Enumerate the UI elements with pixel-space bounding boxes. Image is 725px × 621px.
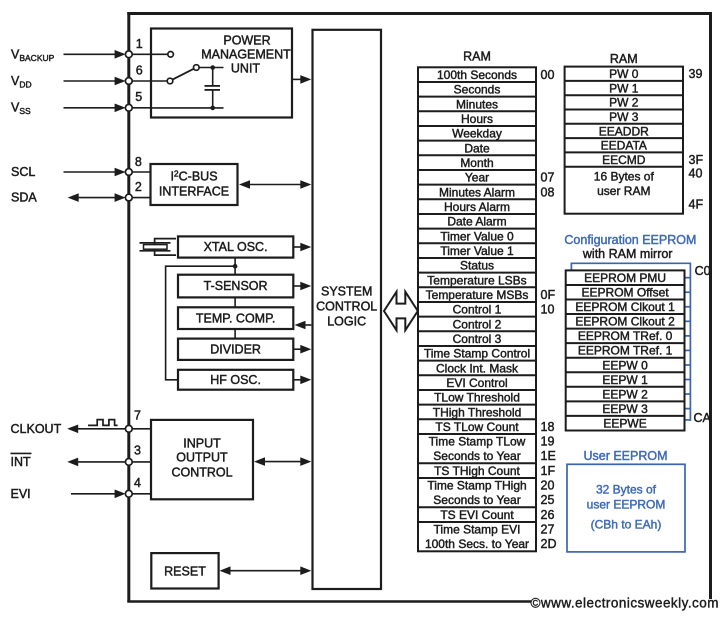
svg-text:Seconds: Seconds [454,83,501,97]
svg-text:CONTROL: CONTROL [316,300,377,314]
svg-text:6: 6 [136,64,143,78]
svg-text:10: 10 [541,303,555,317]
wire VSS into chip [64,104,152,113]
pin number 1 [136,37,143,51]
svg-text:HF OSC.: HF OSC. [210,373,261,387]
svg-text:EEPROM Clkout 1: EEPROM Clkout 1 [575,300,675,314]
wire system control logic to TEMP COMP [295,321,312,330]
svg-text:XTAL OSC.: XTAL OSC. [204,240,268,254]
RAM row Date Alarm [447,215,506,229]
address label 1F [541,464,556,478]
svg-text:5: 5 [135,90,142,104]
PMU switch contact circle VDD [151,78,173,84]
PMU junction node bottom [210,106,215,111]
svg-text:16 Bytes of: 16 Bytes of [594,169,655,183]
svg-text:EEPW 1: EEPW 1 [602,373,648,387]
wire VBACKUP into chip [64,50,152,59]
svg-text:RAM: RAM [610,52,638,66]
RAM row Seconds to Year [433,493,520,507]
watermark electronicsweekly.com [531,596,719,611]
RAM cell 16 Bytes of user RAM [594,169,655,198]
address label 19 [541,435,555,449]
svg-text:7: 7 [134,409,141,423]
svg-text:Month: Month [460,156,493,170]
RAM row 100th Secs. to Year [425,537,529,551]
block U-PMU POWER MANAGEMENT UNIT [151,29,292,118]
svg-text:TEMP. COMP.: TEMP. COMP. [196,311,275,325]
address label 4F [689,197,704,211]
svg-text:100th Secs. to Year: 100th Secs. to Year [425,537,529,551]
svg-text:THigh Threshold: THigh Threshold [433,405,522,419]
RAM row Status [460,259,494,273]
svg-text:8: 8 [135,155,142,169]
pin circle 6 [125,78,132,85]
svg-text:INTERFACE: INTERFACE [159,185,229,199]
svg-text:1: 1 [136,37,143,51]
capacitor C1 backup [205,68,221,108]
pin circle 4 [125,490,132,497]
svg-text:TS THigh Count: TS THigh Count [434,464,520,478]
svg-text:with RAM mirror: with RAM mirror [582,247,673,261]
user EEPROM box [567,464,685,552]
svg-text:EEPROM Offset: EEPROM Offset [582,286,670,300]
pin label CLKOUT [11,422,62,436]
pin label SDA [11,191,37,205]
pin number 7 [134,409,141,423]
pin label SCL [11,165,35,179]
svg-text:19: 19 [541,435,555,449]
svg-text:EEDATA: EEDATA [601,139,647,153]
RAM row TS EVI Count [440,508,514,522]
RAM row Control 1 [453,303,502,317]
svg-text:1F: 1F [541,464,556,478]
subtitle with RAM mirror [582,247,673,261]
svg-text:CA: CA [694,411,712,425]
svg-text:(CBh to EAh): (CBh to EAh) [591,517,662,531]
RAM row Timer Value 0 [440,229,514,243]
svg-text:40: 40 [689,166,703,180]
EEPROM row EEPROM PMU [584,271,666,285]
wire I2C to system control logic bidirectional [239,180,311,189]
RAM row Control 3 [453,332,502,346]
address label 3F [689,153,704,167]
svg-text:SCL: SCL [11,165,35,179]
svg-text:25: 25 [541,493,555,507]
RAM row Time Stamp Control [424,347,530,361]
RAM row Temperature MSBs [426,288,529,302]
svg-text:Time Stamp Control: Time Stamp Control [424,347,530,361]
pin number 3 [134,444,141,458]
bus double-arrow between system control logic and RAM [384,292,418,331]
svg-text:SDA: SDA [11,191,37,205]
RAM row Weekday [452,127,502,141]
RAM row EVI Control [446,376,507,390]
pin circle 7 [125,425,132,432]
svg-text:T-SENSOR: T-SENSOR [204,279,268,293]
EEPROM row EEPROM TRef. 1 [578,344,673,358]
junction node below XTAL [233,264,238,269]
svg-text:1E: 1E [541,449,556,463]
address label C0 [695,264,711,278]
svg-text:Hours: Hours [461,112,493,126]
svg-text:Weekday: Weekday [452,127,502,141]
RAM row PW 1 [609,81,639,95]
block U-RST RESET [151,553,218,588]
RAM table title (right) [610,52,638,66]
svg-text:3F: 3F [689,153,704,167]
RAM row EEDATA [601,139,647,153]
svg-text:OUTPUT: OUTPUT [176,451,228,465]
svg-text:Control 1: Control 1 [453,303,502,317]
pin number 8 [135,155,142,169]
wire XTAL to T-SENSOR [234,258,236,275]
svg-text:Timer Value 0: Timer Value 0 [440,229,514,243]
PMU switch lever and pole circle [173,65,224,80]
pin label EVI [11,487,31,501]
PMU VSS internal rail [151,107,224,109]
svg-text:26: 26 [541,508,555,522]
svg-text:Minutes Alarm: Minutes Alarm [439,185,515,199]
RAM row TS THigh Count [434,464,520,478]
svg-text:3: 3 [134,444,141,458]
RAM mirror bracket (blue) [571,263,690,421]
RAM row Time Stamp THigh [427,479,526,493]
wire INT out of chip [67,458,151,467]
pin circle 3 [125,459,132,466]
RAM row Minutes [456,97,498,111]
RAM row Time Stamp EVI [434,523,521,537]
pin circle 8 [125,169,132,176]
pin label VBACKUP [11,48,55,64]
block DIVIDER [178,339,293,360]
svg-text:RAM: RAM [463,50,491,64]
svg-text:EEPROM TRef. 0: EEPROM TRef. 0 [578,329,673,343]
svg-text:EEPW 0: EEPW 0 [602,358,648,372]
svg-text:CLKOUT: CLKOUT [11,422,62,436]
EEPROM row EEPW 1 [602,373,648,387]
RAM row Temperature LSBs [427,273,526,287]
svg-text:EEPW 2: EEPW 2 [602,387,648,401]
svg-text:00: 00 [541,68,555,82]
block U-I2C I2C-BUS INTERFACE [151,164,238,205]
svg-text:EEPWE: EEPWE [603,416,646,430]
RAM row THigh Threshold [433,405,522,419]
svg-text:EEPROM TRef. 1: EEPROM TRef. 1 [578,344,673,358]
svg-text:EEADDR: EEADDR [599,124,649,138]
block U-IOC INPUT OUTPUT CONTROL [151,420,253,499]
pin number 6 [136,64,143,78]
svg-text:Minutes: Minutes [456,97,498,111]
svg-text:Date Alarm: Date Alarm [447,215,506,229]
RAM row PW 3 [609,110,639,124]
title Configuration EEPROM [564,233,696,247]
RAM row 100th Seconds [437,68,517,82]
svg-text:4F: 4F [689,197,704,211]
RAM row Clock Int. Mask [436,361,519,375]
wire PMU to system control logic [292,75,311,84]
svg-text:SYSTEM: SYSTEM [321,285,372,299]
svg-text:08: 08 [541,185,555,199]
svg-text:©www.electronicsweekly.com: ©www.electronicsweekly.com [531,596,719,611]
pin label VDD [11,74,32,90]
EEPROM row EEPROM Clkout 2 [575,315,675,329]
clkout square wave symbol [88,420,118,426]
RAM row Seconds to Year [433,449,520,463]
svg-text:Timer Value 1: Timer Value 1 [440,244,514,258]
wire RESET to system control logic bidirectional [220,566,312,575]
RAM row TLow Threshold [434,391,520,405]
EEPROM row EEPROM Offset [582,286,670,300]
wire T-SENSOR to system control logic [293,282,311,291]
svg-text:PW 1: PW 1 [609,81,639,95]
wire EVI into chip [71,490,151,499]
svg-text:UNIT: UNIT [231,62,261,76]
svg-text:Control 2: Control 2 [453,317,502,331]
address label 10 [541,303,555,317]
svg-text:user EEPROM: user EEPROM [587,497,666,511]
svg-text:27: 27 [541,523,555,537]
svg-text:EECMD: EECMD [602,153,646,167]
svg-text:PW 2: PW 2 [609,96,639,110]
pin number 5 [135,90,142,104]
svg-text:EVI Control: EVI Control [446,376,507,390]
svg-text:4: 4 [134,476,141,490]
wire T-SENSOR to TEMP COMP [234,297,236,307]
configuration EEPROM table [566,270,685,430]
RAM row Month [460,156,493,170]
svg-text:Seconds to Year: Seconds to Year [433,493,520,507]
block T-SENSOR [178,275,293,298]
svg-text:INPUT: INPUT [183,436,221,450]
svg-text:Temperature MSBs: Temperature MSBs [426,288,529,302]
svg-text:PW 0: PW 0 [609,67,639,81]
pin circle 5 [125,104,132,111]
address label 40 [689,166,703,180]
svg-text:18: 18 [541,420,555,434]
wire CLKOUT out of chip [67,425,151,434]
EEPROM row EEPW 0 [602,358,648,372]
title User EEPROM [583,449,667,463]
address label 2D [541,537,557,551]
RAM register table (left) [418,67,536,551]
svg-text:User EEPROM: User EEPROM [583,449,667,463]
wire SCL into chip [64,168,151,177]
address label CA [694,411,712,425]
pin number 2 [135,180,142,194]
svg-text:32 Bytes of: 32 Bytes of [596,483,657,497]
svg-text:Hours Alarm: Hours Alarm [444,200,510,214]
svg-text:TS TLow Count: TS TLow Count [435,420,519,434]
svg-text:TS EVI Count: TS EVI Count [440,508,514,522]
svg-text:Clock Int. Mask: Clock Int. Mask [436,361,519,375]
chip outline border [127,12,710,602]
RAM row Timer Value 1 [440,244,514,258]
RAM row TS TLow Count [435,420,519,434]
RAM row Control 2 [453,317,502,331]
PMU junction node top [210,65,215,70]
address label 0F [541,288,556,302]
wire HF OSC to system control logic [293,376,311,385]
wire XTAL OSC to system control logic [293,243,311,252]
address label 18 [541,420,555,434]
pin label INT (active low) [11,453,32,469]
svg-text:39: 39 [689,67,703,81]
svg-text:LOGIC: LOGIC [327,314,366,328]
address label 00 [541,68,555,82]
svg-text:EEPROM Clkout 2: EEPROM Clkout 2 [575,315,675,329]
svg-text:20: 20 [541,479,555,493]
EEPROM row EEPW 2 [602,387,648,401]
svg-text:100th Seconds: 100th Seconds [437,68,517,82]
svg-text:Temperature LSBs: Temperature LSBs [427,273,526,287]
pin circle 1 [125,51,132,58]
address label 39 [689,67,703,81]
svg-text:user RAM: user RAM [597,184,650,198]
svg-text:EVI: EVI [11,487,31,501]
svg-text:2D: 2D [541,537,557,551]
block HF OSC. [178,370,293,390]
svg-text:DIVIDER: DIVIDER [210,342,261,356]
wire SDA bidirectional [68,193,151,202]
RAM table title (left) [463,50,491,64]
svg-text:Seconds to Year: Seconds to Year [433,449,520,463]
EEPROM row EEPROM Clkout 1 [575,300,675,314]
RAM row Year [465,171,489,185]
svg-text:POWER: POWER [223,34,270,48]
RAM row Date [464,141,490,155]
wire IOC to system control logic bidirectional [254,457,311,466]
RAM row Hours Alarm [444,200,510,214]
wire TEMP COMP to DIVIDER [234,329,236,339]
wire DIVIDER to system control logic [293,345,311,354]
svg-text:07: 07 [541,171,555,185]
RAM row Seconds [454,83,501,97]
pin number 4 [134,476,141,490]
address label 08 [541,185,555,199]
RAM row Time Stamp TLow [429,435,526,449]
svg-text:INT: INT [11,455,32,469]
address label 07 [541,171,555,185]
PMU switch contact circle VBACKUP [151,52,173,58]
wire VDD into chip [64,77,152,86]
pin label VSS [11,101,31,117]
svg-text:EEPW 3: EEPW 3 [602,402,648,416]
address label 1E [541,449,556,463]
pin circle 2 [125,194,132,201]
svg-text:Time Stamp THigh: Time Stamp THigh [427,479,526,493]
svg-text:Control 3: Control 3 [453,332,502,346]
block XTAL OSC. [178,236,293,257]
svg-text:C0: C0 [695,264,711,278]
svg-text:MANAGEMENT: MANAGEMENT [201,48,291,62]
address label 20 [541,479,555,493]
svg-text:Date: Date [464,141,490,155]
address label 27 [541,523,555,537]
RAM row EECMD [602,153,646,167]
svg-text:Configuration EEPROM: Configuration EEPROM [564,233,696,247]
svg-text:Year: Year [465,171,489,185]
RAM row PW 0 [609,67,639,81]
RAM password/EE table (right) [565,67,683,214]
block U-SCL SYSTEM CONTROL LOGIC [313,30,382,589]
svg-text:Status: Status [460,259,494,273]
svg-text:RESET: RESET [164,565,206,579]
svg-text:PW 3: PW 3 [609,110,639,124]
svg-text:CONTROL: CONTROL [171,466,232,480]
RAM row Hours [461,112,493,126]
svg-text:Time Stamp TLow: Time Stamp TLow [429,435,526,449]
address label 25 [541,493,555,507]
crystal X1 symbol [140,239,177,256]
wire branch to HF OSC [166,266,236,380]
EEPROM row EEPWE [603,416,646,430]
RAM row EEADDR [599,124,649,138]
block TEMP. COMP. [178,307,293,329]
svg-text:0F: 0F [541,288,556,302]
svg-text:EEPROM PMU: EEPROM PMU [584,271,666,285]
RAM row Minutes Alarm [439,185,515,199]
svg-text:TLow Threshold: TLow Threshold [434,391,520,405]
address label 26 [541,508,555,522]
EEPROM row EEPW 3 [602,402,648,416]
svg-text:Time Stamp EVI: Time Stamp EVI [434,523,521,537]
svg-text:2: 2 [135,180,142,194]
EEPROM row EEPROM TRef. 0 [578,329,673,343]
RAM row PW 2 [609,96,639,110]
